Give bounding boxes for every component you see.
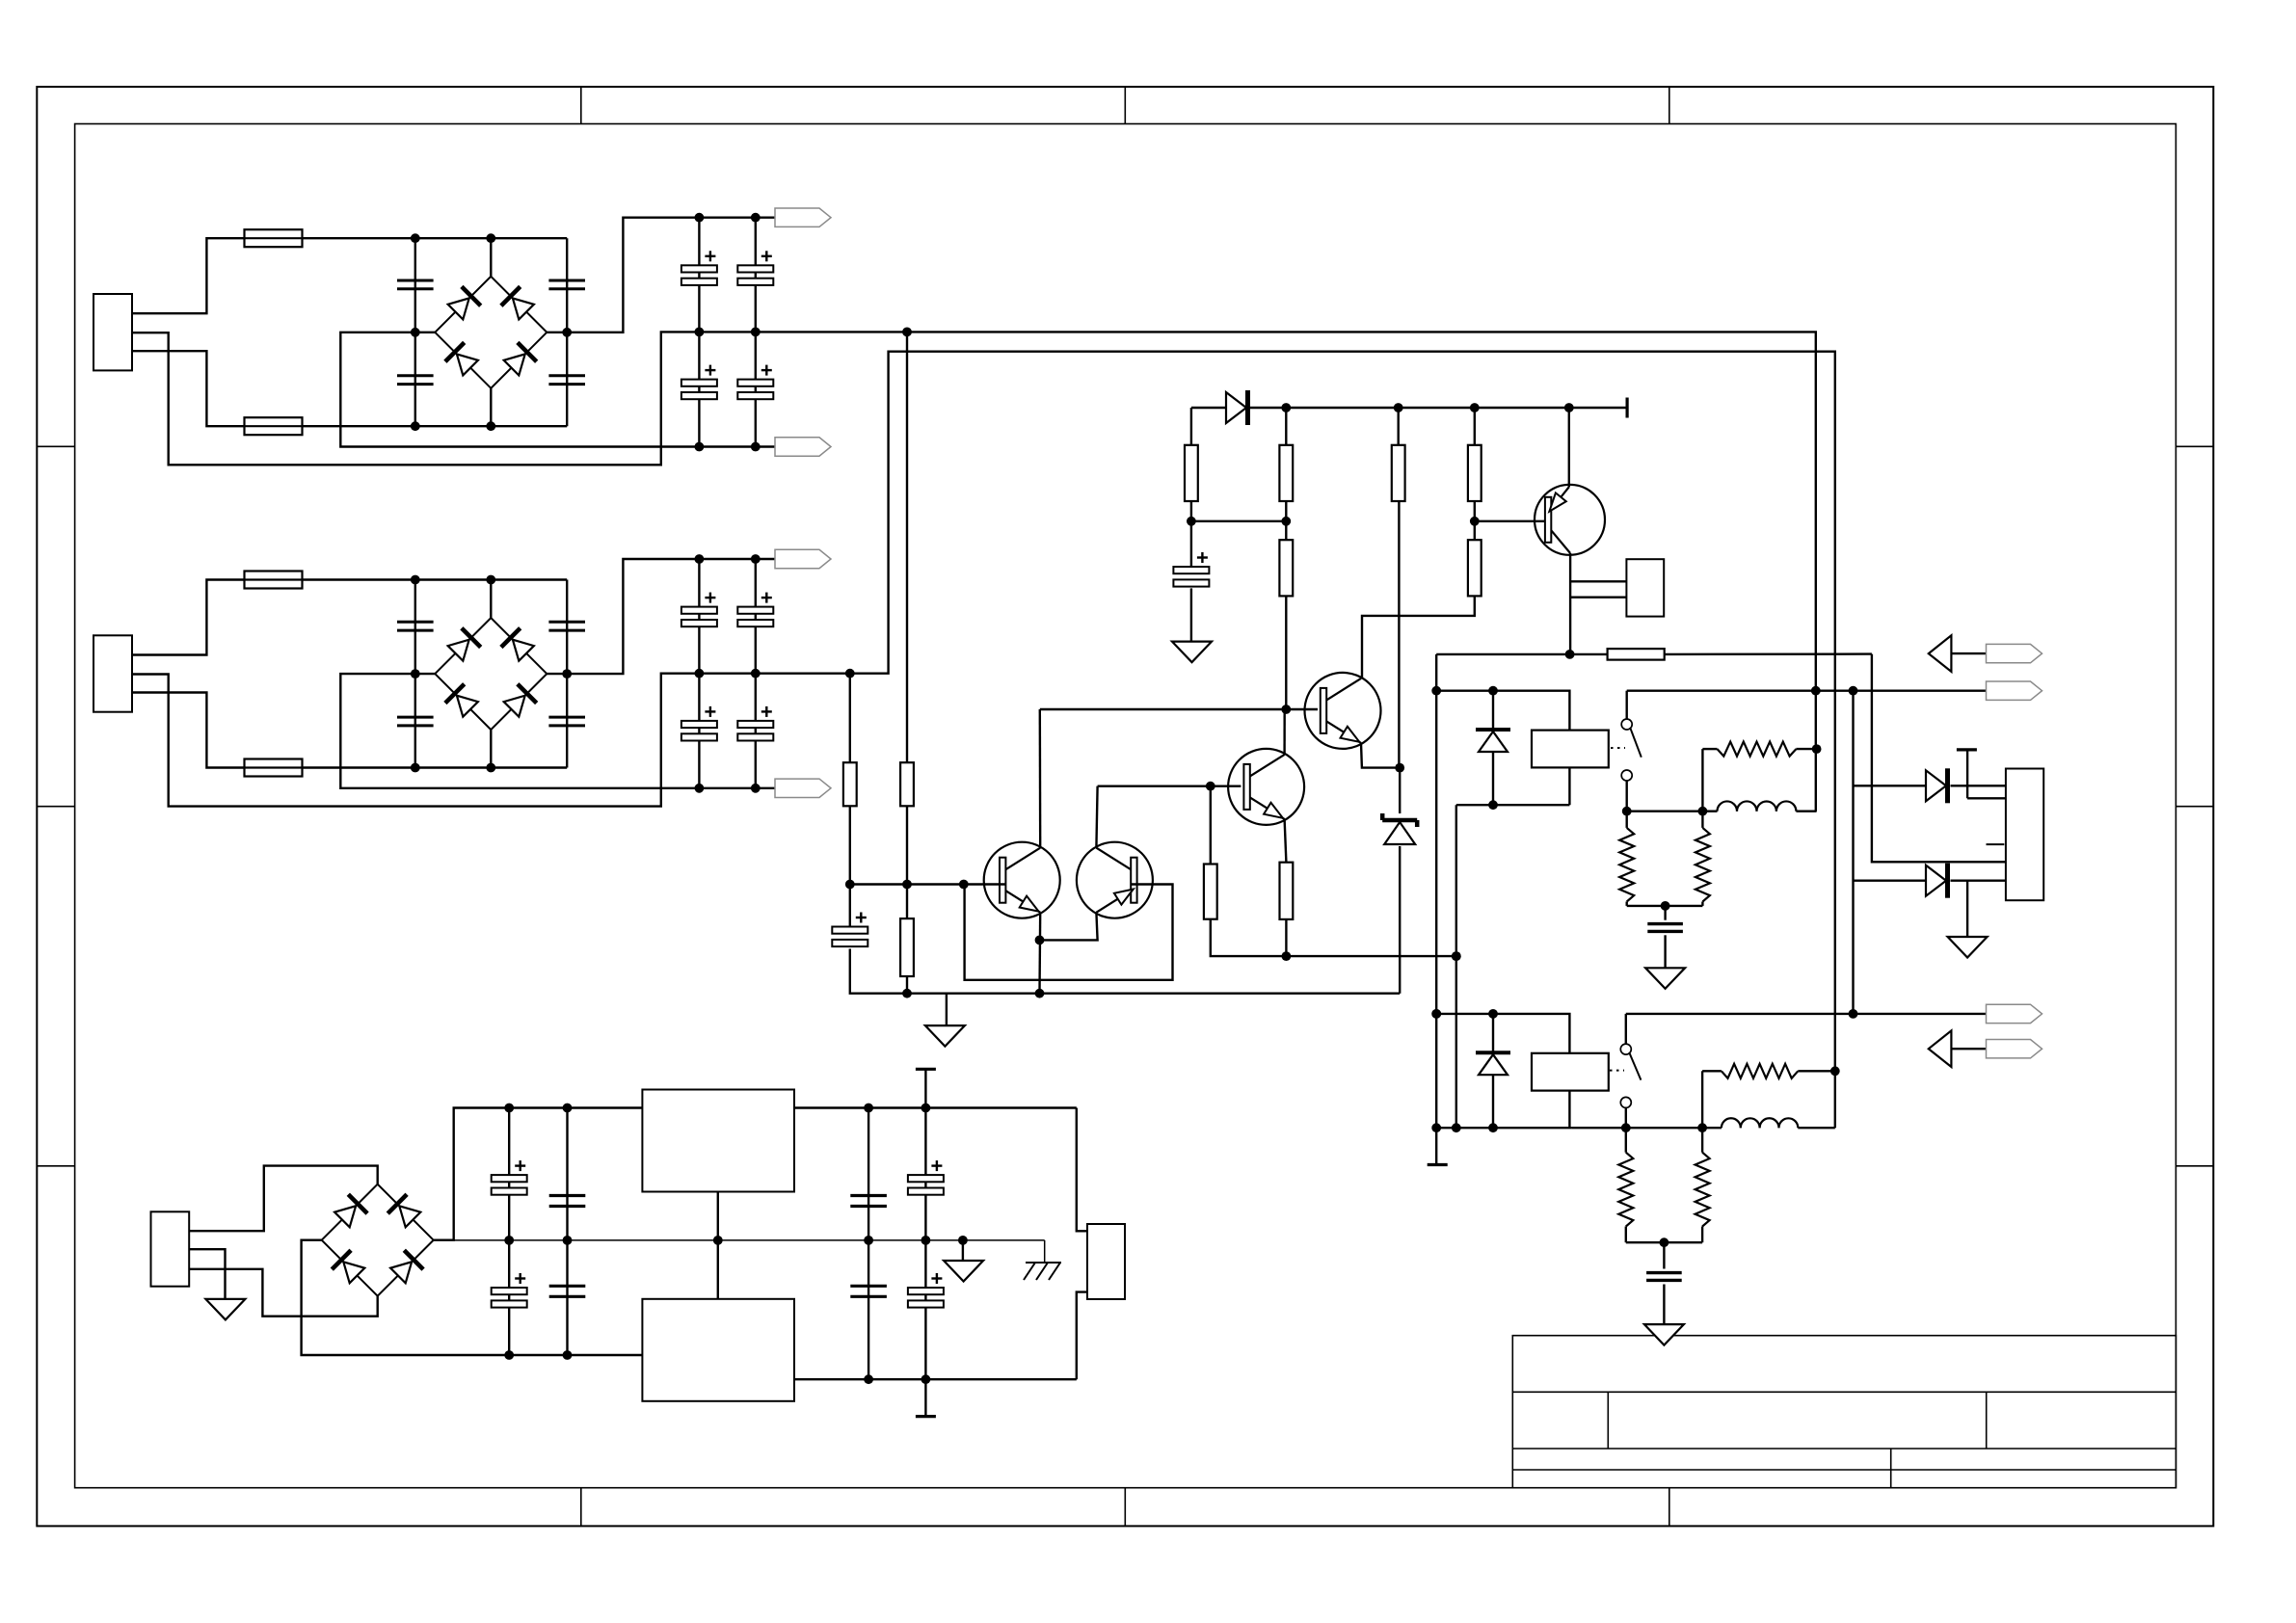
fuse F2b	[245, 759, 303, 777]
relay RL2 coil	[1532, 1053, 1609, 1091]
fuse F1b	[245, 417, 303, 435]
fuse F2a	[245, 572, 303, 589]
wire diode D2f leads	[1492, 1014, 1494, 1128]
wire X3 pin1	[189, 1166, 378, 1232]
capacitor C18	[737, 365, 773, 400]
connector J4	[1087, 1224, 1125, 1299]
transistor Q3	[1305, 673, 1381, 749]
wire relay1 coil-return	[1456, 805, 1570, 1128]
switch K1 actuation	[1611, 747, 1625, 749]
wire X3 pin2	[189, 1249, 225, 1299]
diode D1f	[1476, 730, 1510, 752]
capacitor C16	[549, 1196, 586, 1207]
wire switch2 lower	[1625, 1107, 1627, 1128]
terminal bar relay2 gnd	[1428, 1163, 1448, 1166]
wire relay2 coil-return line	[1436, 1014, 1571, 1128]
capacitor C25	[681, 593, 717, 627]
ground G17	[944, 1261, 983, 1282]
arrow IN2	[1929, 1030, 1987, 1067]
wire switch1 lower	[1627, 781, 1703, 811]
transistor Q1	[1535, 485, 1605, 555]
wire R23 link	[1702, 749, 1816, 811]
wire Q4 base node	[1098, 785, 1241, 787]
transistor Q4	[1228, 749, 1304, 825]
wire amp +rail	[1191, 407, 1627, 409]
transistor Q5	[984, 842, 1060, 918]
junction dot U leads	[713, 1236, 723, 1245]
switch K2 actuation	[1610, 1070, 1624, 1072]
junction dot 0V1 tap	[902, 328, 912, 337]
wire relay2 bottom lead	[1568, 1091, 1570, 1129]
resistor R17	[1608, 649, 1665, 660]
wire zobel1 cap	[1664, 906, 1666, 968]
wire Q6 emitter link	[1040, 913, 1098, 941]
wire PSU3 +V rail	[433, 1108, 643, 1240]
wire chain1-chain2 link	[1191, 520, 1286, 522]
wire Q6 collector	[1096, 786, 1097, 848]
wire Q4 collector	[1283, 709, 1285, 755]
wire AC bottom rail 1	[303, 333, 568, 427]
wire AC input X2	[132, 580, 245, 768]
ground G16	[205, 1299, 245, 1320]
wire Q3 base node	[1040, 708, 1318, 710]
wire PSU3 gnd stub	[962, 1240, 964, 1261]
wire chain4	[1362, 408, 1475, 678]
wire PSU3 +V out	[794, 1108, 1087, 1232]
ground G13	[1645, 968, 1685, 989]
wire input base line	[850, 883, 1005, 885]
wire snubber column left 1	[414, 238, 416, 426]
wire R26 link	[1702, 1071, 1835, 1128]
wire relay feed	[1436, 654, 1570, 691]
switch K1 lower contact	[1621, 770, 1632, 781]
capacitor C20	[908, 1160, 944, 1195]
chassis earth	[1024, 1240, 1061, 1280]
connector J5	[1626, 559, 1664, 616]
junction dots switch1	[1622, 807, 1708, 816]
wire input cap branch	[850, 885, 1400, 994]
wire switch2 common	[1626, 1014, 1987, 1044]
wire jack pin1	[1570, 580, 1626, 582]
regulator U2	[642, 1299, 794, 1401]
resistor R16	[1468, 540, 1482, 596]
wire 0V branch a	[906, 332, 908, 884]
transistor Q6	[1077, 842, 1153, 918]
wire U2 gnd lead	[717, 1240, 719, 1299]
junction dots speaker net	[1849, 686, 1858, 1019]
ground G15	[1948, 937, 1988, 958]
resistor R28	[1695, 1153, 1710, 1227]
wire Q1 collector	[1569, 553, 1571, 654]
junction dots PSU3 left	[504, 1104, 572, 1360]
wire PSU3 out col b	[924, 1108, 926, 1380]
wire Q6 base loop	[965, 885, 1173, 980]
wire diode D1f leads	[1492, 691, 1494, 806]
wire Q5 emitter	[1038, 913, 1041, 994]
junction dot relay1 return	[1452, 951, 1461, 1132]
junction dots PSU3 right	[864, 1104, 968, 1385]
fuse F1a	[245, 229, 303, 247]
wire PSU3 cap col a	[508, 1108, 510, 1356]
wire zobel2 b	[1626, 1128, 1702, 1242]
connector X2	[93, 635, 132, 711]
resistor R13	[1279, 540, 1293, 596]
switch K1 arm	[1631, 729, 1642, 758]
junction dots switch2	[1621, 1123, 1707, 1132]
capacitor C17	[681, 365, 717, 400]
capacitor C12	[832, 913, 868, 947]
wire chain2	[1285, 408, 1287, 709]
wire 0V net PSU2	[132, 352, 1835, 1128]
capacitor C27	[681, 706, 717, 741]
wire Q3 collector	[1361, 678, 1362, 679]
terminal bar amp rail	[1625, 398, 1628, 418]
ground G12	[925, 1025, 965, 1047]
capacitor C15	[492, 1160, 527, 1195]
wire D6 line	[1854, 880, 2006, 882]
net flag OUT1	[1987, 681, 2042, 700]
resistor R21	[843, 762, 857, 806]
wire AC top rail 1	[303, 238, 568, 333]
zener diode ZD1	[1382, 813, 1417, 844]
wire zener chain	[1399, 768, 1401, 994]
connector X1	[93, 294, 132, 370]
capacitor C12	[397, 376, 434, 385]
resistor R15	[1468, 445, 1482, 501]
wire headphone resistor line	[1570, 654, 2006, 863]
wire zobel2 cap	[1663, 1242, 1665, 1324]
terminal bar U1 top	[916, 1069, 936, 1107]
resistor R11	[1185, 445, 1198, 501]
resistor R20	[900, 762, 914, 806]
wire AC input X1	[132, 238, 245, 426]
wire Q5 collector	[1039, 709, 1042, 848]
junction dot chain4	[1470, 517, 1480, 526]
junction dots PSU1	[411, 213, 761, 452]
resistor R18	[1280, 863, 1294, 919]
wire Q1 emitter	[1568, 408, 1570, 487]
wire Qd base	[1475, 520, 1545, 522]
wire zobel1 a	[1625, 811, 1627, 906]
junction dot 0V2 tap	[845, 669, 855, 678]
resistor R22	[900, 918, 914, 976]
diode D6	[1926, 864, 1948, 898]
wire speaker net vertical	[1852, 691, 1854, 1014]
resistor R12	[1279, 445, 1293, 501]
switch K1 top contact	[1621, 719, 1632, 730]
capacitor C23	[548, 622, 585, 630]
wire R22 branch	[906, 885, 908, 994]
junction dot Q3 base	[1281, 705, 1404, 772]
wire PSU3 cap col b	[566, 1108, 568, 1356]
wire R19 branch	[1211, 786, 1456, 956]
wire zobel1 b	[1627, 811, 1703, 906]
diode D4	[1226, 390, 1248, 425]
wire relay-drive down link	[1435, 691, 1437, 1014]
wire jack pin2	[1570, 597, 1626, 599]
wire AC top rail 2	[303, 580, 568, 675]
inductor L2	[1722, 1118, 1798, 1128]
wire elco column 1a	[698, 218, 700, 447]
capacitor C11	[397, 280, 434, 289]
switch K2 top contact	[1620, 1044, 1631, 1054]
bridge rectifier D1	[435, 238, 547, 426]
junction dot chain1	[1187, 517, 1196, 526]
diode D2f	[1476, 1052, 1510, 1075]
junction dot chain2	[1281, 517, 1291, 526]
junction dot Q4 base	[1206, 782, 1215, 791]
net flag IN2	[1987, 1040, 2042, 1058]
junction dot RL2 right	[1830, 1066, 1840, 1076]
capacitor C22	[908, 1273, 944, 1308]
junction dots RL1 right	[1811, 686, 1822, 754]
ground G14	[1644, 1324, 1684, 1345]
wire +V rail 2	[547, 559, 775, 674]
polarity mark	[1987, 843, 2005, 845]
terminal bar speaker	[1957, 750, 2006, 798]
capacitor C21	[397, 622, 434, 630]
capacitor C13	[548, 280, 585, 289]
wire 0V branch b	[849, 674, 851, 885]
capacitor C18	[549, 1286, 586, 1296]
capacitor C28	[737, 706, 773, 741]
wire PSU3 -V out	[794, 1292, 1087, 1380]
switch K2 arm	[1630, 1053, 1642, 1080]
junction dots PSU2	[411, 554, 761, 793]
net flag +V2	[775, 549, 831, 568]
regulator U1	[642, 1090, 794, 1192]
capacitor C11	[1173, 552, 1209, 587]
junction dot zobel2	[1660, 1237, 1669, 1247]
wire relay1 drive line	[1436, 691, 1569, 731]
wire switch1 common	[1627, 691, 1987, 719]
resistor R26	[1722, 1064, 1798, 1078]
switch K2 lower contact	[1620, 1097, 1631, 1107]
junction dots ground rail	[902, 989, 1044, 998]
wire RL2 line	[1571, 1127, 1835, 1129]
inductor L1	[1702, 801, 1816, 811]
wire PSU3 out col a	[868, 1108, 869, 1380]
capacitor C21	[850, 1286, 887, 1296]
wire speaker gnd stub	[1966, 881, 1968, 937]
wire relay2 gnd stub	[1435, 1128, 1437, 1164]
wire relay2 drive line	[1436, 1014, 1569, 1053]
wire elco column 2b	[755, 559, 757, 788]
wire 0V net PSU1	[132, 332, 1816, 811]
capacitor C13	[1647, 924, 1683, 932]
wire relay1 bottom lead	[1568, 767, 1570, 805]
net flag -V2	[775, 779, 831, 797]
net flag -V1	[775, 438, 831, 456]
wire snubber column left 2	[414, 580, 416, 768]
net flag +V1	[775, 208, 831, 226]
connector J6 speaker	[2006, 769, 2043, 901]
wire U1 gnd lead	[717, 1192, 719, 1240]
bridge rectifier D3	[322, 1184, 434, 1296]
ground G11	[1172, 642, 1212, 663]
wire Q3 emitter	[1361, 743, 1400, 768]
junction dots relay2 line	[1431, 1009, 1441, 1132]
capacitor C14	[1646, 1273, 1682, 1281]
net flag OUT2	[1987, 1004, 2042, 1023]
bridge rectifier D2	[435, 580, 547, 768]
arrow IN1	[1929, 635, 1987, 672]
net flag IN1	[1987, 644, 2042, 662]
wire AC bottom rail 2	[303, 674, 568, 768]
connector X3	[151, 1211, 190, 1286]
wire D5 line	[1854, 785, 2006, 786]
resistor R25	[1695, 828, 1710, 902]
resistor R14	[1392, 445, 1405, 501]
capacitor C24	[548, 717, 585, 726]
junction dot Q5 emitter	[1035, 936, 1045, 945]
capacitor C22	[397, 717, 434, 726]
junction dots feedback line	[1282, 951, 1461, 961]
wire -V rail 1	[340, 333, 775, 447]
junction dots relay1	[1431, 686, 1498, 810]
wire elco column 2a	[698, 559, 700, 788]
junction dots amp rail	[1281, 403, 1573, 412]
wire ground stub	[946, 994, 948, 1025]
resistor R27	[1618, 1153, 1633, 1227]
wire X3 pin3	[189, 1269, 378, 1317]
junction dot zobel1	[1661, 901, 1670, 911]
title block	[1512, 1336, 2176, 1488]
resistor R23	[1718, 742, 1797, 757]
terminal bar U2 bottom	[916, 1379, 936, 1416]
capacitor C14	[548, 376, 585, 385]
resistor R24	[1619, 828, 1634, 902]
wire -V rail 2	[340, 674, 775, 788]
wire chain3	[1397, 408, 1400, 768]
junction dot relay feed	[1565, 650, 1575, 659]
wire elco column 1b	[755, 218, 757, 447]
resistor R19	[1204, 865, 1217, 919]
capacitor C19	[850, 1196, 887, 1207]
capacitor C16	[737, 251, 773, 285]
relay RL1 coil	[1532, 731, 1609, 768]
wire PSU3 mid rail	[454, 1239, 1045, 1241]
wire PSU3 -V rail	[302, 1240, 643, 1355]
capacitor C17	[492, 1273, 527, 1308]
diode D5	[1926, 768, 1948, 803]
capacitor C15	[681, 251, 717, 285]
junction dots base line	[845, 880, 969, 890]
wire Q4 emitter	[1285, 819, 1287, 956]
capacitor C26	[737, 593, 773, 627]
junction dots relay2	[1431, 1009, 1498, 1132]
wire zobel2 a	[1625, 1128, 1627, 1242]
wire +V rail 1	[547, 218, 775, 333]
wire chain1	[1190, 408, 1192, 642]
